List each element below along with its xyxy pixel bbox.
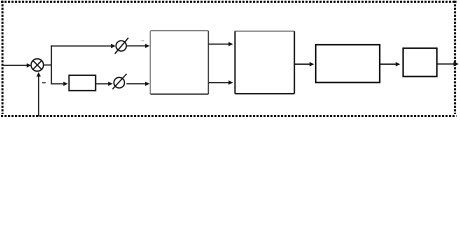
wire branch vertical segment [50,45,52,84]
wire sampler 1 to block G1 [126,44,149,48]
wire block G1 lower output to block G2 [208,80,233,84]
sampler 1 circle [116,41,126,51]
block G4 small right [403,48,437,76]
summing junction X cross [33,61,42,70]
block G2 large right [235,31,295,93]
wire block G1 upper output to block G2 [208,42,233,46]
wire output y crossing border with arrow [437,62,459,67]
block G1 large left [150,31,208,95]
summing junction circle [31,59,43,71]
wire small block to sampler 2 [96,82,113,86]
crop border dotted left [1,1,3,114]
crop border dotted top [1,1,457,3]
wire feedback vertical with up arrow into summer [36,72,40,117]
sampler 2 diagonal switch stroke [113,74,127,89]
sampler 1 diagonal switch stroke [115,38,129,54]
wire input r with arrow into summer [2,63,31,67]
wire block G3 to block G4 [380,62,401,66]
wire top path to sampler 1 [51,44,116,48]
minus sign label [42,82,46,83]
wire summer output to branch [44,64,53,66]
wire bottom path to small block [51,82,68,86]
block G3 wide [316,45,380,83]
wire sampler 2 to block G1 lower input [126,82,149,86]
crop border dotted right [454,1,456,114]
faint artifact dash [141,40,144,41]
sampler 2 circle [114,77,125,88]
wire block G2 to block G3 [294,62,314,66]
crop border dotted bottom [1,115,457,117]
block H small [69,75,96,90]
